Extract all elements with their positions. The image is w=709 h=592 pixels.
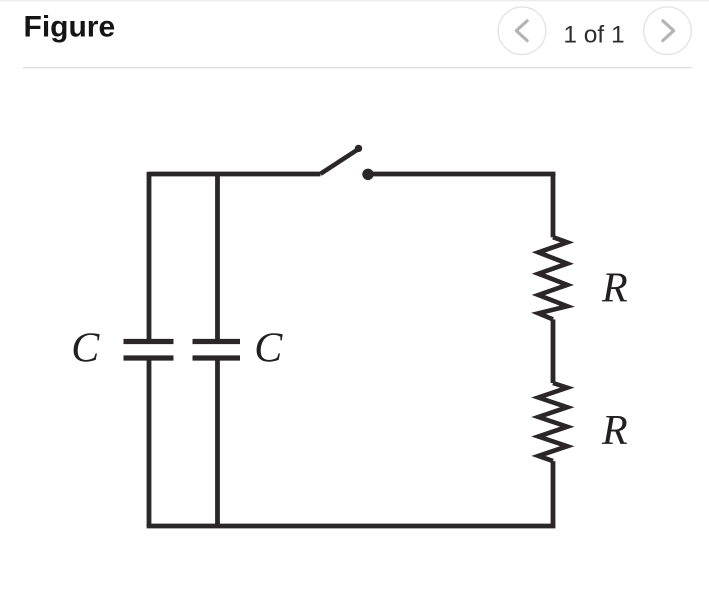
- svg-text:1 of 1: 1 of 1: [563, 21, 624, 48]
- capacitor C2 bottom plate: [193, 355, 241, 360]
- wire right vertical lower: [551, 461, 556, 526]
- capacitor C1 bottom plate: [124, 355, 174, 360]
- next button circle: [644, 7, 692, 55]
- wire left vertical lower: [147, 358, 152, 526]
- wire left vertical upper: [147, 173, 152, 342]
- svg-text:R: R: [601, 408, 628, 454]
- switch lever tip dot: [355, 145, 362, 152]
- svg-text:R: R: [601, 266, 628, 312]
- prev chevron: [516, 21, 527, 41]
- resistor R2 zigzag: [538, 383, 567, 461]
- capacitor C2 top plate: [193, 339, 241, 344]
- svg-text:C: C: [71, 325, 100, 371]
- wire right vertical upper: [551, 174, 556, 237]
- svg-text:C: C: [254, 325, 283, 371]
- svg-text:Figure: Figure: [24, 10, 116, 43]
- switch lever: [321, 150, 358, 174]
- wire inner vertical lower: [215, 358, 220, 526]
- capacitor C1 top plate: [124, 339, 174, 344]
- next chevron: [663, 21, 674, 41]
- wire top left segment: [149, 172, 321, 174]
- wire inner vertical upper: [215, 174, 220, 342]
- switch contact dot (node): [362, 169, 373, 180]
- resistor R1 zigzag: [538, 237, 567, 319]
- prev button circle: [498, 7, 546, 55]
- top hairline: [0, 0, 709, 1]
- wire right vertical middle: [551, 319, 556, 383]
- wire bottom: [149, 524, 553, 526]
- wire top right segment: [368, 174, 553, 176]
- header divider: [23, 67, 692, 68]
